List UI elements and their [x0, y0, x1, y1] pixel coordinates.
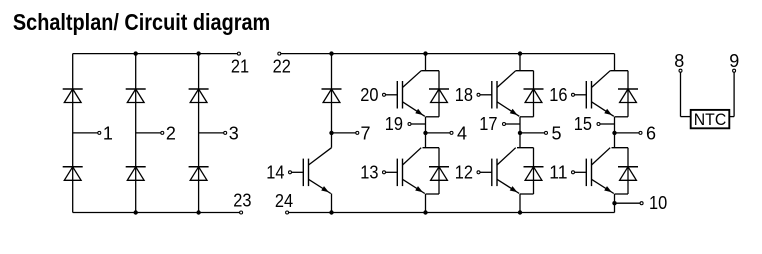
svg-text:4: 4 [457, 123, 467, 143]
svg-text:1: 1 [103, 123, 113, 143]
svg-text:17: 17 [479, 114, 497, 134]
svg-text:2: 2 [166, 123, 176, 143]
svg-text:20: 20 [360, 85, 378, 105]
svg-text:11: 11 [549, 162, 567, 182]
svg-text:10: 10 [649, 193, 667, 213]
svg-text:23: 23 [233, 191, 251, 211]
svg-text:18: 18 [455, 85, 473, 105]
svg-text:Schaltplan/ Circuit diagram: Schaltplan/ Circuit diagram [13, 9, 270, 35]
svg-text:24: 24 [275, 191, 293, 211]
svg-text:6: 6 [646, 123, 656, 143]
svg-text:21: 21 [231, 56, 249, 76]
svg-text:12: 12 [455, 162, 473, 182]
svg-text:15: 15 [574, 114, 592, 134]
svg-text:9: 9 [729, 51, 739, 71]
svg-text:7: 7 [360, 123, 370, 143]
svg-text:NTC: NTC [694, 110, 727, 129]
svg-text:22: 22 [273, 56, 291, 76]
svg-text:3: 3 [229, 123, 239, 143]
svg-text:5: 5 [551, 123, 561, 143]
svg-text:16: 16 [549, 85, 567, 105]
svg-text:14: 14 [266, 162, 284, 182]
svg-text:13: 13 [360, 162, 378, 182]
svg-text:8: 8 [674, 51, 684, 71]
svg-text:19: 19 [385, 114, 403, 134]
